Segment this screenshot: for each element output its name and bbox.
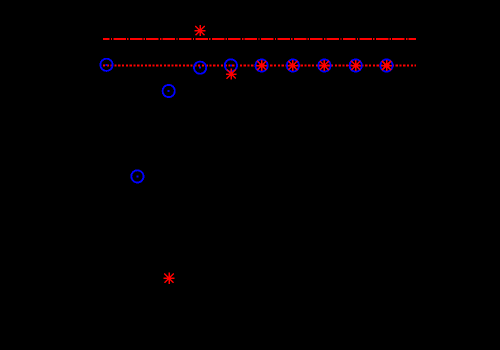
red asterisk marker 4 (256, 60, 267, 71)
blue circle marker 7 (287, 59, 299, 71)
dash-dot red reference line (upper) (103, 38, 416, 40)
blue circle marker 6 (256, 59, 268, 71)
red asterisk marker 2 (195, 25, 206, 36)
blue circle marker 5 (225, 59, 237, 71)
blue circle marker 1 (100, 59, 112, 71)
blue circle marker 3 (163, 85, 175, 97)
blue circle marker 2 (131, 170, 143, 182)
red asterisk marker 8 (381, 60, 392, 71)
blue circle marker 9 (350, 59, 362, 71)
red asterisk marker 6 (319, 60, 330, 71)
red asterisk marker 5 (288, 60, 299, 71)
blue circle marker 10 (380, 59, 392, 71)
dotted red reference line (limit) (103, 65, 416, 67)
red asterisk marker 1 (164, 273, 175, 284)
red asterisk marker 3 (226, 69, 237, 80)
red asterisk marker 7 (350, 60, 361, 71)
blue circle marker 8 (318, 59, 330, 71)
blue circle marker 4 (194, 62, 206, 74)
